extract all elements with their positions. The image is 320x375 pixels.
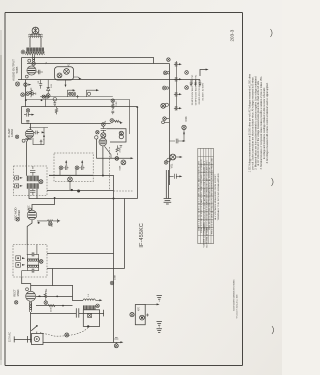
wire long bus y80	[18, 79, 200, 81]
diode box	[106, 129, 126, 142]
wire det plate line	[102, 146, 104, 176]
pin	[96, 131, 99, 134]
wire conv to osc box	[27, 220, 32, 245]
svg-text:OSC: OSC	[28, 205, 31, 210]
svg-text:.05 400V .02 600V: .05 400V .02 600V	[203, 82, 205, 101]
loop circuit	[135, 304, 145, 324]
IF transformer T2 dashed box	[14, 166, 48, 196]
svg-text:30 MFD 150V ELECTROLYTIC: 30 MFD 150V ELECTROLYTIC	[192, 74, 194, 105]
dashed gang link horizontal	[114, 190, 134, 192]
resistor	[30, 88, 33, 97]
terminal	[57, 73, 62, 78]
tube V3 12AV6 det	[99, 138, 107, 146]
tick	[76, 95, 79, 98]
junction	[71, 189, 73, 191]
junction	[25, 99, 27, 101]
line cord double	[166, 170, 168, 198]
wire left rail lower	[25, 80, 27, 107]
wire bottom y342	[43, 342, 121, 344]
svg-text:per volt. Socket connections a: per volt. Socket connections are shown a…	[252, 76, 255, 169]
wire y268 left	[47, 268, 125, 270]
resistor hanging	[55, 107, 58, 115]
terminal	[115, 157, 119, 161]
cap marks y112	[26, 109, 29, 112]
pin	[25, 75, 28, 78]
wire left drop	[21, 107, 23, 124]
tube V1 converter 12BE6	[27, 210, 37, 220]
oscillator coil dashed box	[13, 245, 47, 278]
tube V2 IF amp 12BA6	[25, 129, 34, 138]
terminal	[21, 93, 25, 97]
wiper arrow	[176, 156, 180, 158]
series cap plates	[76, 308, 79, 317]
gnd stack mid	[157, 322, 162, 327]
terminal	[39, 260, 43, 264]
grid cap terminal	[26, 92, 30, 96]
wire left rail	[21, 58, 23, 80]
capacitor	[101, 126, 106, 132]
terminal avc	[110, 119, 114, 123]
svg-text:TERMINALS TO B- WITH NO SIGNAL: TERMINALS TO B- WITH NO SIGNAL APPLIED	[217, 173, 220, 221]
adj screw	[15, 176, 19, 180]
terminal right	[185, 71, 189, 75]
capacitor	[33, 131, 39, 135]
osc coil L2B	[28, 264, 39, 266]
trimmer cap top	[30, 166, 35, 176]
capacitor	[30, 92, 36, 96]
electrolytic C20C	[174, 92, 179, 97]
wire	[43, 128, 45, 135]
tube V5 rectifier 35W4	[26, 291, 36, 301]
screen post 2	[87, 90, 97, 97]
osc coil below tube	[30, 301, 32, 312]
cap on stub	[169, 139, 182, 144]
svg-text:3. Nominal tolerance of compo: 3. Nominal tolerance of component values…	[260, 77, 263, 170]
binder mark	[272, 326, 274, 334]
capacitor top	[32, 252, 34, 256]
terminal	[121, 160, 126, 165]
svg-text:470K: 470K	[120, 147, 122, 153]
terminal	[39, 180, 43, 184]
speaker cone	[32, 27, 39, 34]
svg-text:IF-455KC: IF-455KC	[139, 223, 145, 248]
junction	[102, 175, 104, 177]
wire rect top link	[31, 285, 53, 287]
svg-text:12BA6: 12BA6	[10, 128, 14, 137]
adj screw	[16, 256, 21, 261]
svg-text:2. Measured values are from s: 2. Measured values are from socket termi…	[254, 76, 257, 170]
trimmer cap bottom	[30, 189, 35, 196]
junction	[87, 325, 89, 327]
svg-text:PIN 1 2 3 4 5 6 7 LINE: PIN 1 2 3 4 5 6 7 LINE 117V AC 60 CYC 25…	[211, 158, 214, 234]
svg-text:500K: 500K	[119, 165, 121, 170]
terminal	[42, 95, 45, 98]
wire AVC bus y123	[22, 123, 111, 125]
osc tank rails	[27, 254, 39, 270]
wire heater bus	[27, 63, 170, 65]
svg-text:12BE6: 12BE6	[17, 209, 21, 218]
electrolytic C20A	[174, 62, 179, 67]
junction	[101, 123, 105, 127]
corner terminal	[163, 117, 167, 121]
electrolytic C20B	[174, 77, 179, 82]
wire B- y313 right	[79, 313, 104, 315]
svg-text:203-3: 203-3	[230, 29, 235, 41]
diode plates	[119, 131, 123, 135]
output transformer frame	[30, 38, 41, 48]
capacitor	[39, 80, 42, 89]
PM speaker bubble	[55, 67, 74, 80]
svg-text:NO SIGNAL APPLIED: NO SIGNAL APPLIED	[206, 227, 209, 248]
wire + arrow	[96, 299, 100, 301]
terminal	[130, 313, 134, 317]
speaker voice coil loops	[29, 34, 43, 35]
capacitor	[24, 113, 32, 117]
socket	[34, 336, 39, 341]
svg-text:1. DC Voltage measurements ar: 1. DC Voltage measurements are at 20,000…	[249, 73, 252, 172]
diag wiper	[105, 146, 112, 158]
adj screw	[16, 263, 21, 268]
pin	[28, 59, 31, 62]
wire filter rail x169	[169, 64, 171, 186]
link terminal	[65, 333, 69, 337]
terminal	[162, 86, 166, 90]
trimmer C1A	[59, 166, 63, 170]
binder mark	[272, 178, 274, 186]
svg-text:VOLUME CONTROL MIN.: VOLUME CONTROL MIN.	[204, 223, 206, 248]
output transformer T1 primary winding	[27, 48, 45, 52]
svg-text:4. All voltages measured with: 4. All voltages measured with volume con…	[266, 82, 269, 163]
trimmer C1B	[75, 166, 79, 170]
terminal top	[167, 58, 171, 62]
terminal	[46, 95, 49, 98]
resistor to right	[37, 219, 58, 223]
pin	[38, 222, 40, 224]
svg-text:ALL VOLTAGES MEASURED FROM SOC: ALL VOLTAGES MEASURED FROM SOCKET	[214, 174, 217, 220]
svg-text:117V AC: 117V AC	[7, 332, 11, 342]
svg-text:50B5: 50B5	[15, 66, 19, 73]
wires out bottom	[29, 189, 37, 199]
resistor on y305	[48, 305, 55, 307]
gnd stack top	[157, 296, 162, 301]
wire row y100	[26, 100, 130, 135]
filter choke loops	[83, 299, 96, 301]
wire through trimmers	[49, 174, 93, 176]
gnd stack low	[157, 329, 162, 333]
svg-text:100K: 100K	[115, 274, 117, 280]
wire main bus y198.7	[29, 198, 138, 200]
pin	[22, 139, 25, 142]
svg-text:at 117 volts AC for all of the: at 117 volts AC for all of the voltage m…	[257, 80, 260, 166]
cap to gnd	[53, 98, 56, 101]
coil internal leads	[22, 245, 37, 278]
wire osc link y253	[47, 253, 114, 255]
svg-text:50 MFD 150V ELECTROLYTIC: 50 MFD 150V ELECTROLYTIC	[195, 74, 197, 105]
cap to gnd	[40, 140, 43, 144]
on-off switch	[31, 326, 36, 331]
arrow into tube	[38, 295, 41, 297]
polarity mark	[88, 313, 92, 317]
osc coil L2A	[28, 258, 39, 260]
wire IF tube to IF2 box	[27, 138, 29, 176]
svg-text:35W4 91 0 0 76 117 121: 35W4 91 0 0 76 117 121 0 RECT HTR TAP PI…	[208, 161, 211, 230]
wire filter rail x176	[176, 61, 178, 110]
border frame of schematic page	[5, 13, 243, 366]
tube socket voltage table grid	[198, 148, 214, 243]
terminal right	[185, 86, 189, 90]
terminal	[44, 301, 48, 305]
terminal	[110, 281, 114, 285]
AC plug prongs	[164, 199, 172, 204]
resistor	[116, 145, 119, 155]
terminal	[32, 62, 36, 66]
dashed gang link vertical	[108, 147, 110, 191]
terminal	[163, 71, 167, 75]
wire cathode loop	[33, 137, 44, 145]
binder mark	[271, 29, 273, 37]
stub to y190	[69, 182, 71, 190]
plus mark	[146, 314, 149, 317]
terminal	[48, 222, 52, 226]
scan edge shadow	[0, 30, 2, 365]
wire arrow	[145, 303, 157, 305]
wire y190 under gang	[47, 190, 114, 192]
line cap stubs	[190, 80, 193, 86]
wire drop x52	[53, 269, 74, 286]
wire osc coil drop	[30, 312, 32, 343]
volume pot	[170, 154, 176, 160]
tube V4 50B5 output	[27, 66, 36, 75]
wire IF grid drop	[30, 123, 32, 130]
resistor + arrow	[112, 120, 121, 123]
svg-text:in voltage and resistance read: in voltage and resistance readings obtai…	[263, 87, 266, 159]
grid terminal	[101, 133, 106, 138]
wire y305	[36, 305, 73, 307]
interlock box	[32, 334, 44, 345]
trimmer lead	[60, 170, 76, 175]
choke core	[83, 305, 96, 309]
terminal	[182, 125, 186, 129]
arrow	[42, 131, 45, 133]
wire conv plate up	[32, 199, 55, 211]
junction dots	[56, 296, 58, 298]
pin	[15, 135, 18, 138]
capacitor bottom	[32, 269, 34, 273]
resistor on heater line	[44, 291, 46, 301]
capacitor	[111, 111, 114, 114]
pin	[95, 136, 98, 139]
terminal	[24, 83, 28, 87]
wire gang line y175	[49, 176, 114, 343]
arrow	[43, 134, 45, 137]
tuning gang dashed box	[54, 153, 93, 182]
cap marks	[120, 146, 123, 147]
svg-text:12BA6 0 0 0 117 39 85 8: 12BA6 0 0 0 117 39 85 85 0.1 IF AMP 455K…	[200, 158, 203, 232]
resistor vertical	[112, 103, 114, 110]
diode	[47, 80, 50, 94]
svg-text:VOL: VOL	[172, 163, 174, 168]
wire stem	[45, 98, 47, 107]
svg-text:470K: 470K	[186, 116, 188, 122]
svg-text:22K: 22K	[52, 223, 54, 227]
output transformer T1 secondary winding	[26, 52, 45, 55]
terminal	[111, 99, 115, 103]
terminal	[72, 92, 76, 96]
svg-text:2.2M: 2.2M	[116, 101, 118, 106]
wire choke feed	[73, 286, 84, 301]
pin terminal	[16, 218, 19, 221]
wire B+ top bus	[22, 58, 154, 64]
wire row y106	[22, 106, 138, 108]
stub with arrow	[65, 80, 67, 85]
wire AC line	[14, 339, 31, 341]
antenna wire	[200, 70, 206, 77]
wire out	[74, 77, 80, 79]
terminal	[21, 50, 25, 54]
terminal	[164, 161, 168, 165]
wire speaker leads	[33, 55, 35, 61]
pin	[26, 288, 29, 291]
arrow	[28, 84, 31, 86]
wire component row y96	[40, 96, 113, 98]
cap	[169, 174, 180, 179]
arrow right	[120, 341, 123, 343]
wire osc box exit	[22, 277, 31, 291]
junction top	[54, 197, 56, 199]
wire x137 drop to bus	[137, 107, 139, 199]
terminal	[161, 103, 166, 108]
svg-text:©Howard W. Sams & Co. 1946: ©Howard W. Sams & Co. 1946	[236, 294, 239, 318]
wire drop x124.6	[124, 199, 126, 269]
cap plate	[26, 336, 28, 343]
svg-text:12BE6 0 -6.8 0 117 26 85: 12BE6 0 -6.8 0 117 26 85 0 1.2 0 47 2.2M…	[198, 160, 200, 231]
wire det cath	[95, 139, 97, 158]
cap stack	[26, 120, 29, 123]
terminal	[15, 301, 18, 304]
AC plug bar	[13, 336, 15, 342]
field box	[83, 310, 99, 327]
coil marks	[33, 58, 35, 60]
dashed mech link	[40, 328, 88, 337]
terminal	[46, 94, 50, 98]
svg-text:35W4: 35W4	[16, 289, 20, 297]
terminal	[64, 69, 70, 75]
gang rotor terminal	[68, 177, 73, 182]
secondary winding	[27, 183, 39, 188]
terminal dark	[140, 315, 145, 320]
electrolytic C20D	[174, 106, 179, 111]
link knob	[77, 190, 80, 193]
screen post	[68, 90, 74, 97]
wire rect heater y296	[36, 296, 73, 298]
primary winding	[27, 176, 39, 182]
wire y127 stub	[29, 127, 48, 129]
adj screw	[15, 184, 19, 188]
bottom terminal	[114, 344, 118, 348]
volume line y158	[96, 157, 131, 159]
cap end bar	[103, 310, 105, 317]
terminal	[96, 304, 100, 308]
capacitor at plate	[36, 70, 43, 74]
wire B- y313	[31, 313, 77, 315]
